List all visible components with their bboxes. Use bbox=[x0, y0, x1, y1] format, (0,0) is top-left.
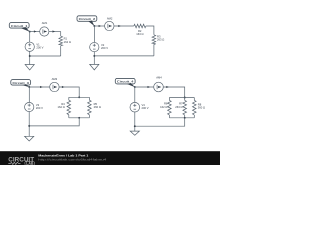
node junction dot bbox=[29, 31, 31, 33]
wire AM1 to R1 bbox=[49, 31, 61, 33]
ammeter AM4 bbox=[154, 76, 164, 92]
wire AM2 to R2 bbox=[114, 25, 134, 27]
node junction dot bbox=[184, 117, 186, 119]
label flag Circuit_4 bbox=[115, 78, 135, 84]
label flag Circuit_3 bbox=[11, 80, 31, 86]
svg-text:AM1: AM1 bbox=[42, 21, 48, 25]
resistor R8 bbox=[193, 98, 206, 118]
flag pointer wire bbox=[22, 84, 29, 87]
svg-text:200 V: 200 V bbox=[101, 46, 108, 50]
flag pointer wire bbox=[127, 83, 135, 87]
svg-text:Circuit_4: Circuit_4 bbox=[117, 80, 134, 84]
bottom bus wire bbox=[169, 117, 194, 119]
voltage source V1 bbox=[25, 42, 44, 51]
wire V3 bottom to ground bbox=[28, 112, 30, 137]
current arrow bbox=[99, 25, 102, 27]
svg-text:200 V: 200 V bbox=[36, 46, 43, 50]
current arrow bbox=[148, 86, 151, 88]
bottom bus wire bbox=[69, 117, 90, 119]
wire V1 bottom to ground bbox=[29, 51, 31, 64]
wire junction to V4 top bbox=[134, 87, 136, 102]
label flag Circuit_2 bbox=[77, 16, 97, 21]
voltage source V4 bbox=[130, 102, 149, 112]
svg-text:200 V: 200 V bbox=[36, 106, 43, 110]
node junction dot bbox=[184, 97, 186, 99]
current arrow bbox=[40, 86, 43, 88]
ammeter AM2 bbox=[105, 17, 114, 31]
ground bbox=[25, 136, 34, 141]
current arrow bbox=[34, 30, 37, 32]
wire junction to AM3 bbox=[29, 86, 49, 88]
ground bbox=[90, 64, 99, 70]
wire junction to V2 top bbox=[93, 26, 95, 42]
node junction dot bbox=[134, 125, 136, 127]
bottom wire R3 to V2 bbox=[94, 55, 154, 57]
resistor R5 bbox=[88, 97, 101, 118]
current arrow bbox=[166, 86, 169, 88]
node junction dot bbox=[134, 86, 136, 88]
svg-text:263 Ω: 263 Ω bbox=[175, 105, 182, 109]
svg-text:260 Ω: 260 Ω bbox=[94, 105, 101, 109]
svg-text:263 Ω: 263 Ω bbox=[157, 38, 164, 42]
svg-text:162 Ω: 162 Ω bbox=[160, 105, 167, 109]
node junction dot bbox=[93, 55, 95, 57]
svg-text:200 V: 200 V bbox=[142, 106, 149, 110]
node junction dot bbox=[78, 117, 80, 119]
node junction dot bbox=[93, 25, 95, 27]
svg-text:AM2: AM2 bbox=[107, 17, 113, 21]
svg-text:360 Ω: 360 Ω bbox=[198, 106, 205, 110]
resistor R4 bbox=[58, 97, 71, 118]
wire AM4 to network corner bbox=[163, 87, 184, 98]
svg-text:LAB: LAB bbox=[26, 162, 34, 165]
svg-text:Circuit_2: Circuit_2 bbox=[79, 17, 96, 21]
resistor R1 bbox=[59, 32, 71, 57]
return wire to V4 bbox=[135, 118, 185, 126]
flag pointer wire bbox=[21, 27, 30, 32]
return wire to V3 bbox=[29, 118, 79, 126]
current arrow bbox=[62, 86, 65, 88]
logo LAB box bbox=[25, 162, 35, 165]
current arrow bbox=[118, 25, 121, 27]
ammeter AM3 bbox=[50, 77, 59, 92]
node junction dot bbox=[28, 86, 30, 88]
current arrow bbox=[53, 30, 56, 32]
wire junction to V1 top bbox=[29, 32, 31, 42]
wire V2 bottom to ground bbox=[93, 52, 95, 65]
svg-text:163 Ω: 163 Ω bbox=[136, 32, 143, 36]
ground bbox=[130, 131, 139, 135]
flag pointer wire bbox=[88, 21, 94, 27]
resistor R6 bbox=[160, 98, 171, 118]
wire AM3 to network corner bbox=[59, 87, 79, 97]
svg-text:162 Ω: 162 Ω bbox=[58, 105, 65, 109]
resistor R2 bbox=[134, 24, 146, 36]
node junction dot bbox=[29, 55, 31, 57]
top bus wire bbox=[169, 97, 194, 99]
wire junction to AM2 bbox=[94, 25, 104, 27]
label flag Circuit_1 bbox=[9, 23, 29, 29]
logo resistor squiggle bbox=[8, 162, 20, 164]
resistor R7 bbox=[175, 98, 186, 118]
voltage source V3 bbox=[25, 102, 44, 111]
svg-text:162 Ω: 162 Ω bbox=[64, 40, 71, 44]
wire V4 bottom to ground bbox=[134, 112, 136, 131]
wire junction to AM4 bbox=[135, 86, 154, 88]
ground bbox=[25, 65, 34, 71]
svg-text:AM4: AM4 bbox=[156, 76, 162, 80]
top bus wire bbox=[69, 96, 90, 98]
svg-text:Circuit_3: Circuit_3 bbox=[12, 81, 29, 85]
node junction dot bbox=[78, 96, 80, 98]
voltage source V2 bbox=[90, 42, 109, 51]
svg-text:AM3: AM3 bbox=[52, 77, 58, 81]
svg-text:http://circuitlab.com/c6kud4fa: http://circuitlab.com/c6kud4fabnu4 bbox=[38, 158, 107, 162]
wire junction to AM1 bbox=[30, 31, 40, 33]
wire junction to V3 top bbox=[28, 87, 30, 102]
resistor R3 bbox=[152, 34, 164, 56]
svg-text:MackenzieEnns / Lab 1 Part 1: MackenzieEnns / Lab 1 Part 1 bbox=[38, 154, 89, 158]
ammeter AM1 bbox=[40, 21, 49, 36]
bottom wire R1 to V1 bbox=[30, 55, 61, 57]
wire R2 to corner bbox=[146, 26, 154, 35]
CircuitLab logo bbox=[8, 157, 34, 166]
node junction dot bbox=[28, 125, 30, 127]
